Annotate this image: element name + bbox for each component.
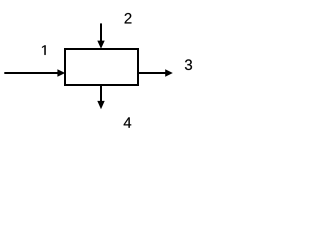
wire stream 1 (left inlet) [4,72,58,74]
label 4 [124,117,132,127]
wire stream 4 (bottom outlet) [100,86,102,102]
process block [65,49,138,85]
arrowhead stream 2 [97,41,104,49]
wire stream 3 (right outlet) [138,72,166,74]
label 3 [185,59,192,70]
arrowhead stream 3 [165,69,173,76]
label 1 [42,45,46,55]
wire stream 2 (top inlet) [100,23,102,42]
arrowhead stream 4 [97,101,104,109]
arrowhead stream 1 [57,69,65,76]
label 2 [125,13,132,23]
